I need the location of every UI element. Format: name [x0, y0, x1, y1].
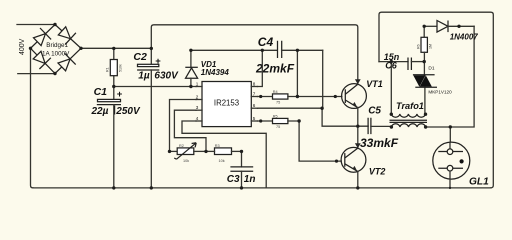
svg-text:R5: R5	[273, 115, 278, 119]
wire pin4 to ground	[182, 121, 266, 188]
svg-text:R2: R2	[179, 144, 184, 148]
node bridge AC bottom	[53, 72, 56, 75]
svg-text:4: 4	[196, 116, 199, 121]
capacitor C2 1u 630V	[150, 49, 152, 65]
node pin6 VS corner	[320, 107, 323, 110]
pin 6	[251, 107, 257, 109]
svg-text:C1: C1	[94, 86, 108, 98]
node trafo primary left terminal	[390, 113, 393, 116]
node bridge DC plus	[79, 47, 82, 50]
node 1N4007 cathode wire	[457, 25, 460, 28]
node C2 top on +raw rail	[150, 47, 153, 50]
svg-text:6: 6	[253, 103, 256, 108]
node R3 right / C3 top	[240, 150, 243, 153]
wire right box edge + top + left edge	[379, 12, 493, 188]
wire pin6 to midpoint	[258, 108, 369, 126]
node trafo secondary left terminal	[390, 125, 393, 128]
pin 3	[196, 109, 202, 111]
primary top winding	[391, 114, 425, 117]
svg-text:VT2: VT2	[369, 166, 386, 176]
svg-text:10k: 10k	[183, 159, 189, 163]
svg-text:+: +	[117, 89, 123, 100]
node C6 lead / trafo branch	[390, 60, 393, 63]
svg-text:C3: C3	[227, 174, 240, 185]
node R2 left / pin2	[168, 150, 171, 153]
svg-text:10k: 10k	[219, 159, 225, 163]
svg-text:+: +	[155, 56, 161, 67]
diode VD1 1N4394	[190, 50, 192, 67]
svg-text:R4: R4	[273, 90, 278, 94]
node bridge DC minus	[29, 47, 32, 50]
svg-text:400V: 400V	[19, 38, 26, 55]
svg-text:D1: D1	[428, 65, 434, 71]
node lamp return on ground rail	[449, 187, 451, 189]
node VT1 base pin	[334, 95, 337, 98]
resistor R1 vertical	[113, 49, 115, 87]
svg-text:VT1: VT1	[366, 79, 383, 89]
svg-text:22mkF: 22mkF	[255, 61, 295, 75]
node C6 right / diac top	[423, 60, 426, 63]
wire trafo bottom-right lead	[426, 26, 475, 127]
diac D1 MKP1V120	[413, 74, 435, 76]
svg-text:Bridge1: Bridge1	[46, 42, 68, 49]
svg-text:R3: R3	[215, 144, 220, 148]
pin 7	[251, 96, 257, 98]
capacitor C4 22mkF	[278, 41, 282, 58]
svg-text:1: 1	[196, 81, 199, 86]
pin 1	[196, 86, 202, 88]
resistor R6 vertical in right box	[423, 26, 425, 37]
diode D-bottomleft of bridge	[33, 51, 51, 69]
pin 5	[251, 120, 257, 122]
node R1 bottom / C1 top / VCC	[112, 85, 115, 88]
node R4 right / C4 drop	[296, 95, 299, 98]
node C3 bottom on ground rail	[240, 186, 243, 189]
svg-text:Trafo1: Trafo1	[396, 101, 424, 111]
node trafo primary right terminal	[424, 113, 427, 116]
svg-text:75: 75	[276, 125, 280, 129]
node lamp top feed	[449, 125, 452, 128]
node R5 left	[259, 119, 262, 122]
node C1 bottom on ground rail	[112, 186, 115, 189]
wire VCC row to pin 1	[114, 86, 196, 88]
svg-text:GL1: GL1	[469, 176, 489, 187]
wire bottom ground rail	[33, 187, 491, 189]
svg-text:1M: 1M	[429, 44, 433, 49]
svg-text:33mkF: 33mkF	[360, 136, 399, 150]
node VT2 emitter on ground rail	[356, 186, 359, 189]
svg-text:5: 5	[253, 116, 256, 121]
resistor R4	[258, 96, 273, 98]
wire C4 to R4 output	[296, 50, 298, 96]
svg-text:C2: C2	[133, 51, 147, 63]
wire top +310V rail	[151, 25, 357, 84]
svg-text:250V: 250V	[115, 106, 141, 117]
svg-text:1n: 1n	[244, 174, 256, 185]
node VD1 anode on VCC row	[189, 85, 192, 88]
wire VD1 top row to C4	[191, 49, 277, 51]
node C2 bottom on ground rail	[150, 186, 153, 189]
node trafo secondary right terminal	[424, 125, 427, 128]
wire trafo top-left up to C6 lead	[390, 62, 392, 114]
node R1 top on +raw rail	[112, 47, 115, 50]
diode D-topright of bridge	[58, 27, 76, 45]
wire AC input top	[17, 24, 55, 26]
svg-text:1N4394: 1N4394	[201, 68, 230, 77]
node R5 right corner	[297, 119, 300, 122]
resistor R2 variable	[170, 150, 179, 152]
wire pin8 to C4 node	[258, 50, 263, 86]
svg-text:1N4007: 1N4007	[450, 33, 479, 42]
op-amp U1 IC IR2153	[202, 82, 251, 127]
svg-text:8: 8	[253, 81, 256, 86]
pin 4	[196, 120, 202, 122]
node bridge AC top	[53, 23, 56, 26]
svg-text:C4: C4	[258, 35, 274, 49]
diode 1N4007	[424, 25, 437, 27]
wire pin2 to R2	[170, 100, 197, 152]
node R4 left	[259, 95, 262, 98]
svg-text:R1: R1	[106, 67, 110, 72]
svg-text:3: 3	[196, 105, 199, 110]
svg-text:C5: C5	[368, 105, 381, 116]
diode D-topleft of bridge	[34, 28, 52, 46]
wire pin3 to R2/R3 junction	[174, 110, 206, 151]
capacitor C5 33mkF	[368, 118, 371, 134]
node 1N4007 anode / R6 top	[423, 25, 426, 28]
node C4 right / HO branch	[296, 49, 299, 52]
wire trafo top-right up to diac	[424, 87, 426, 114]
bridge rectifier Bridge1 diamond	[31, 25, 82, 74]
secondary bottom winding	[391, 124, 425, 127]
pin 8	[251, 86, 257, 88]
svg-text:MKP1V120: MKP1V120	[428, 90, 452, 95]
capacitor C6 15n	[379, 61, 408, 63]
wire AC input bottom	[18, 73, 55, 75]
svg-text:75: 75	[276, 101, 280, 105]
svg-text:22µ: 22µ	[91, 106, 109, 117]
wire left frame (minus rail)	[31, 48, 34, 188]
svg-text:7: 7	[253, 91, 256, 96]
svg-text:IR2153: IR2153	[214, 99, 239, 108]
diode D-bottomright of bridge	[58, 53, 76, 71]
node VT2 base pin	[335, 160, 338, 163]
resistor R3	[215, 148, 232, 155]
svg-text:1µ: 1µ	[138, 70, 150, 81]
core	[390, 120, 428, 122]
capacitor C3 1n	[241, 151, 243, 167]
svg-text:510k: 510k	[119, 64, 123, 72]
svg-text:R6: R6	[417, 44, 421, 49]
svg-text:630V: 630V	[154, 70, 179, 81]
node R2-R3 junction / pin3	[204, 150, 207, 153]
transistor VT1	[342, 84, 367, 109]
node VD1 cathode on C4 row	[189, 49, 192, 52]
node pin8 branch on C4 row	[261, 49, 264, 52]
pin 2	[196, 99, 202, 101]
node half-bridge midpoint	[356, 125, 359, 128]
svg-text:2: 2	[196, 94, 199, 99]
resistor R5	[258, 120, 273, 122]
transistor VT2	[341, 147, 366, 172]
lamp GL1	[449, 127, 451, 142]
wire DC+ from bridge right vertex	[81, 47, 151, 49]
capacitor C1 22u 250V	[113, 87, 115, 100]
svg-text:1A 1000V: 1A 1000V	[42, 50, 70, 57]
